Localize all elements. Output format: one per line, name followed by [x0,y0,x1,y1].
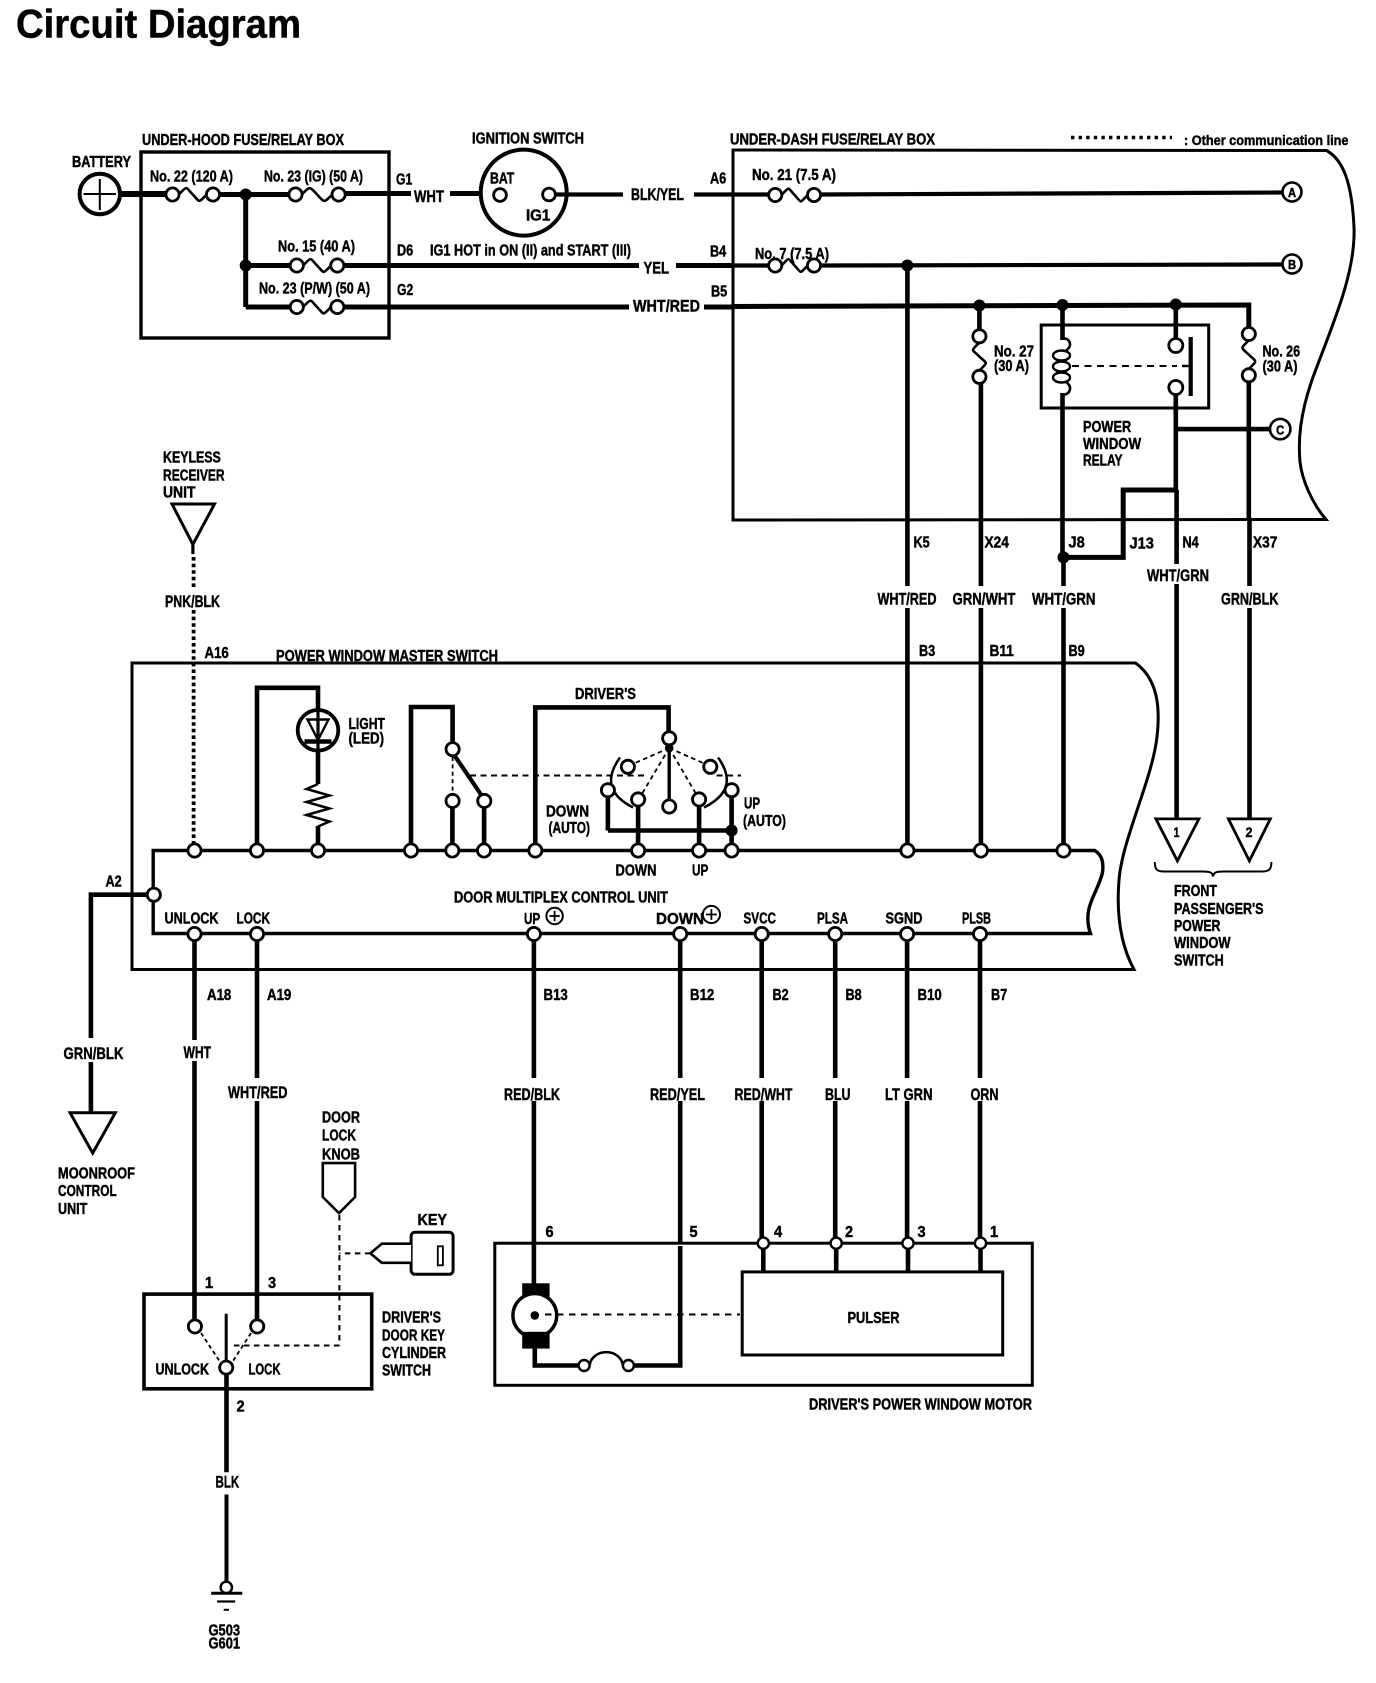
lock switch [411,707,491,845]
svg-text:WHT: WHT [184,1043,212,1062]
keyless receiver unit [163,450,225,545]
battery [72,154,131,214]
wire battery to under-hood box [120,191,167,197]
wire A6 to node A [820,193,1283,195]
svg-text:WHT/RED: WHT/RED [228,1083,288,1102]
svg-text:LT GRN: LT GRN [885,1085,933,1104]
svg-text:D6: D6 [397,243,413,260]
svg-text:KEY: KEY [418,1212,448,1229]
wire J8 WHT/GRN to B9 [1032,557,1096,845]
svg-text:PULSER: PULSER [848,1310,900,1327]
svg-text:3: 3 [268,1275,276,1292]
svg-text:RED/YEL: RED/YEL [650,1085,705,1104]
fuse No.26 (30 A) [1242,327,1300,382]
svg-text:SGND: SGND [886,911,923,928]
svg-text:C: C [1276,423,1285,438]
fuse No.21 (7.5 A) [710,167,836,202]
svg-text:G1: G1 [396,172,412,189]
wire A2 to moonroof control unit [64,874,161,1113]
key [370,1212,453,1274]
under-hood fuse/relay box [141,132,389,338]
svg-text:DOOR: DOOR [322,1110,360,1127]
wire B8 BLU to motor pin 2 [825,940,862,1243]
wire 2 BLK to ground [216,1374,245,1582]
door lock knob [322,1110,360,1214]
svg-text:1: 1 [205,1275,213,1292]
svg-text:IG1 HOT in ON (II) and START (: IG1 HOT in ON (II) and START (III) [430,243,631,260]
driver's switch frame [535,686,668,845]
svg-text:DRIVER'S: DRIVER'S [575,686,636,703]
fuse No.22 (120 A) [150,169,233,202]
svg-text:MOONROOF: MOONROOF [58,1166,135,1183]
power window relay [1041,305,1209,558]
wire B5 bus [711,284,1249,329]
svg-text:UNLOCK: UNLOCK [165,911,219,928]
wire fuse No.22 to junction [219,192,290,197]
svg-text:A18: A18 [207,987,231,1004]
svg-text:GRN/BLK: GRN/BLK [64,1044,125,1063]
svg-text:WHT/RED: WHT/RED [878,590,937,609]
wire BLK/YEL ignition to under-dash A6 [556,185,734,204]
svg-text:KNOB: KNOB [322,1147,360,1164]
svg-text:DOOR KEY: DOOR KEY [382,1328,445,1345]
svg-text:No. 23 (IG) (50 A): No. 23 (IG) (50 A) [264,169,363,186]
svg-text:(AUTO): (AUTO) [743,813,786,830]
driver's switch wiper contacts [611,758,727,808]
svg-text:(LED): (LED) [349,731,385,748]
wire B7 ORN to motor pin 1 [971,940,1008,1243]
under-dash fuse/relay box [730,132,1354,521]
node: battery bus junction [240,189,252,201]
svg-text:BATTERY: BATTERY [72,154,131,171]
svg-text:DRIVER'S: DRIVER'S [382,1310,441,1327]
fuse No.23 (IG) (50 A) [264,169,363,202]
driver's switch pivot [663,732,676,813]
svg-text:(30 A): (30 A) [994,358,1029,375]
svg-text:KEYLESS: KEYLESS [163,450,221,467]
svg-text:GRN/BLK: GRN/BLK [1221,590,1279,609]
svg-text:B9: B9 [1069,643,1085,660]
svg-text:BLK/YEL: BLK/YEL [631,185,684,204]
svg-text:4: 4 [774,1224,782,1241]
wire junction vertical [240,195,252,308]
svg-text:ORN: ORN [971,1085,999,1104]
svg-text:G601: G601 [209,1636,241,1653]
svg-text:WINDOW: WINDOW [1083,436,1142,453]
svg-text:B10: B10 [918,987,942,1004]
svg-text:DRIVER'S POWER WINDOW MOTOR: DRIVER'S POWER WINDOW MOTOR [809,1397,1032,1414]
svg-text:5: 5 [690,1224,698,1241]
LED light branch wires [257,688,318,845]
svg-text:(AUTO): (AUTO) [549,820,591,837]
motor commutator loop wire [535,1246,680,1371]
svg-text:WHT/GRN: WHT/GRN [1147,566,1209,585]
svg-text:LOCK: LOCK [237,911,271,928]
svg-text:IG1: IG1 [526,208,550,225]
wire K5 WHT/RED to B3 [878,266,937,846]
fuse No.15 (40 A) [246,239,355,273]
svg-text:1: 1 [990,1224,998,1241]
svg-text:FRONT: FRONT [1174,883,1217,900]
svg-text:LOCK: LOCK [322,1128,356,1145]
svg-text:2: 2 [237,1399,245,1416]
svg-text:UNIT: UNIT [163,485,196,502]
svg-text:No. 23 (P/W) (50 A): No. 23 (P/W) (50 A) [259,281,370,298]
driver's switch dashed fan [631,748,708,796]
svg-text:(30 A): (30 A) [1263,359,1298,376]
legend: other communication line [1071,132,1349,148]
wire relay contact to node C [1176,394,1270,490]
driver's switch auto contacts and bar [546,784,786,880]
wire D6 YEL [344,243,734,278]
knob/key dashed links [232,1215,370,1346]
svg-text:UP: UP [692,863,709,880]
svg-text:B4: B4 [710,244,726,261]
wire B4 to node B [820,260,1283,272]
wire B12 RED/YEL to motor pin 5 [650,940,714,1243]
svg-text:X37: X37 [1253,535,1277,552]
svg-text:POWER: POWER [1174,918,1221,935]
wire PNK/BLK dotted [165,543,229,844]
svg-text:PASSENGER'S: PASSENGER'S [1174,901,1264,918]
ignition switch [472,131,584,236]
svg-text:WHT/GRN: WHT/GRN [1032,590,1096,609]
cylinder switch contacts [156,1314,281,1379]
svg-text:A19: A19 [267,987,291,1004]
svg-text:IGNITION SWITCH: IGNITION SWITCH [472,131,584,148]
svg-text:Circuit Diagram: Circuit Diagram [16,3,301,47]
node B [1283,255,1302,274]
svg-text:B7: B7 [991,987,1007,1004]
wire J13 jog [1058,490,1176,563]
svg-text:UNIT: UNIT [58,1201,87,1218]
svg-text:X24: X24 [985,535,1009,552]
svg-text:POWER: POWER [1083,419,1132,436]
svg-text:DOOR MULTIPLEX CONTROL UNIT: DOOR MULTIPLEX CONTROL UNIT [454,890,668,907]
motor M [513,1243,557,1349]
svg-text:DOWN: DOWN [616,863,657,880]
fuse No.7 (7.5 A) [710,244,829,273]
svg-text:A: A [1288,186,1296,200]
svg-text:J8: J8 [1069,535,1085,552]
svg-text:UNLOCK: UNLOCK [156,1362,210,1379]
svg-text:No. 22 (120 A): No. 22 (120 A) [150,169,233,186]
wire G2 WHT/RED [344,282,734,316]
svg-text:2: 2 [1246,825,1253,840]
svg-text:B2: B2 [773,987,789,1004]
svg-text:RELAY: RELAY [1083,453,1123,470]
connector labels K5 X24 J8 N4 X37 [914,535,1278,552]
node A [1283,183,1302,202]
LED light [298,710,385,751]
svg-text:GRN/WHT: GRN/WHT [953,590,1016,609]
svg-text:POWER WINDOW MASTER SWITCH: POWER WINDOW MASTER SWITCH [276,648,498,665]
driver's door key cylinder switch box [144,1294,446,1389]
svg-text:UP: UP [744,796,760,813]
wire B10 LT GRN to motor pin 3 [885,940,942,1243]
ground G503 G601 [209,1582,243,1653]
svg-text:G2: G2 [397,282,413,299]
svg-text:No. 7 (7.5 A): No. 7 (7.5 A) [755,246,829,263]
svg-text:RED/WHT: RED/WHT [735,1085,793,1104]
wire G1 WHT to ignition switch [345,172,481,207]
arrow terminal 1 [1156,819,1199,861]
svg-text:CONTROL: CONTROL [58,1183,117,1200]
svg-text:K5: K5 [914,535,930,552]
multiplex pin labels [165,906,992,928]
fuse No.23 (P/W) (50 A) [246,281,370,314]
svg-text:N4: N4 [1183,535,1199,552]
svg-text:BLU: BLU [825,1085,851,1104]
svg-text:No. 21 (7.5 A): No. 21 (7.5 A) [752,167,836,184]
svg-text:A2: A2 [106,874,122,891]
svg-text:RECEIVER: RECEIVER [163,468,225,485]
svg-text:BAT: BAT [490,171,514,188]
wire X37 GRN/BLK to front passenger switch 2 [1221,520,1279,824]
svg-text:A6: A6 [710,171,726,188]
pulser [742,1272,1003,1355]
pulser feed stubs [763,1249,980,1272]
svg-text:RED/BLK: RED/BLK [504,1085,561,1104]
svg-text:UNDER-HOOD FUSE/RELAY BOX: UNDER-HOOD FUSE/RELAY BOX [142,132,344,149]
mechanical link dashed [470,775,741,777]
svg-text:CYLINDER: CYLINDER [382,1345,446,1362]
svg-text:1: 1 [1174,825,1180,840]
svg-text:: Other communication line: : Other communication line [1184,132,1349,148]
svg-text:B5: B5 [711,284,727,301]
svg-text:PLSB: PLSB [962,911,991,928]
svg-text:J13: J13 [1130,536,1154,553]
svg-text:2: 2 [845,1224,853,1241]
svg-text:6: 6 [546,1224,554,1241]
svg-text:PLSA: PLSA [817,911,848,928]
power window master switch box [132,648,1158,970]
svg-text:UP: UP [524,911,540,928]
svg-text:SWITCH: SWITCH [1174,953,1224,970]
svg-text:BLK: BLK [216,1473,240,1492]
multiplex bottom connector rings [188,927,987,940]
svg-text:No. 15 (40 A): No. 15 (40 A) [278,239,355,256]
arrow terminal 2 [1228,819,1270,861]
svg-text:B12: B12 [690,987,714,1004]
wire X37 upper [1247,382,1252,520]
svg-text:DOWN: DOWN [546,804,589,821]
svg-text:B: B [1288,258,1296,272]
svg-text:B8: B8 [846,987,862,1004]
svg-text:UNDER-DASH FUSE/RELAY BOX: UNDER-DASH FUSE/RELAY BOX [730,132,935,149]
svg-text:SVCC: SVCC [744,911,777,928]
motor-pulser dashed link [545,1314,740,1316]
wire B2 RED/WHT to motor pin 4 [735,940,793,1243]
motor pin rings [758,1238,986,1249]
front passenger power window switch label [1155,862,1272,970]
svg-text:LOCK: LOCK [249,1362,281,1379]
node C [1270,419,1290,439]
svg-text:WHT/RED: WHT/RED [633,297,700,316]
svg-text:B3: B3 [919,643,935,660]
svg-text:YEL: YEL [644,259,670,278]
driver's power window motor box [495,1243,1033,1413]
svg-text:SWITCH: SWITCH [382,1363,431,1380]
wire X24 GRN/WHT to B11 [953,383,1016,845]
svg-text:A16: A16 [205,645,229,662]
wire B13 RED/BLK to motor pin 6 [504,940,568,1243]
resistor [307,751,330,845]
moonroof control unit arrow [58,1113,135,1218]
bus connector rings [188,844,1070,857]
svg-text:DOWN: DOWN [656,911,704,928]
wire A18 WHT [184,940,232,1320]
svg-text:WINDOW: WINDOW [1174,935,1231,952]
wire N4 WHT/GRN to front passenger switch 1 [1147,490,1209,823]
svg-text:3: 3 [918,1224,926,1241]
title [16,3,301,47]
wire A19 WHT/RED [228,940,291,1320]
svg-text:B13: B13 [544,987,568,1004]
door multiplex control unit box [153,851,1103,934]
fuse No.27 (30 A) [973,306,1034,384]
svg-text:B11: B11 [990,643,1014,660]
svg-text:PNK/BLK: PNK/BLK [165,592,221,611]
svg-text:WHT: WHT [414,187,444,206]
